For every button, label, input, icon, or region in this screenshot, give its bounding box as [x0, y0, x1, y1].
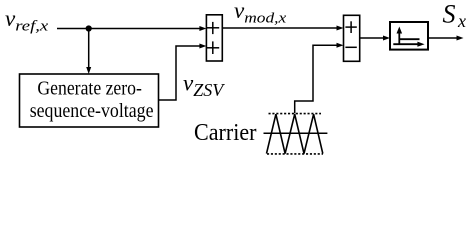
svg-text:Generate zero-: Generate zero- [37, 78, 142, 100]
svg-text:sequence-voltage: sequence-voltage [30, 100, 154, 122]
wire: v_ref to summer S1 [57, 26, 206, 31]
summer S1 plus (bottom) [207, 41, 220, 54]
svg-text:vZSV: vZSV [183, 71, 225, 101]
carrier lower bound (dotted line) [267, 153, 323, 155]
wire: generator output (v_ZSV) to summer S1 [159, 44, 207, 101]
label Carrier [194, 119, 257, 146]
wire: carrier up to summer S2 minus input [295, 43, 344, 114]
summer S2 plus [345, 21, 356, 33]
svg-text:vmod,x: vmod,x [234, 0, 287, 26]
summer S2 box [344, 15, 360, 61]
summer S1 plus (top) [207, 22, 220, 34]
wire: comparator output S_x [428, 36, 464, 41]
label S_x [443, 0, 467, 31]
carrier midline [264, 132, 328, 134]
label v_mod,x [234, 0, 287, 26]
wire: v_mod from S1 to summer S2 [222, 26, 343, 31]
carrier upper bound (dotted line) [269, 113, 322, 115]
label v_ref,x [5, 6, 49, 35]
comparator step symbol: y-axis arrow [397, 27, 403, 45]
carrier triangle waveform [267, 114, 323, 153]
wire: S2 output to comparator [360, 36, 390, 41]
summer S1 box [206, 15, 222, 61]
summer S2 minus [345, 46, 356, 48]
label v_ZSV [183, 71, 225, 101]
comparator block box [390, 22, 428, 50]
svg-text:Carrier: Carrier [194, 119, 257, 146]
svg-text:vref,x: vref,x [5, 6, 49, 35]
svg-text:Sx: Sx [443, 0, 467, 31]
wire: junction down to generator block [86, 29, 91, 75]
comparator step symbol: high level line [399, 38, 419, 40]
node: tap junction [86, 25, 92, 31]
comparator step symbol: x-axis arrow [393, 42, 424, 47]
block: Generate zero-sequence-voltage [20, 74, 159, 127]
